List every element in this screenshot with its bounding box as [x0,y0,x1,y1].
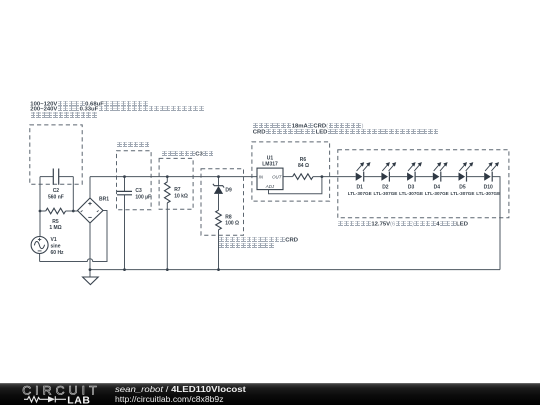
svg-text:D3: D3 [408,185,415,191]
LED D10 [484,162,499,182]
svg-text:LTL-307GE: LTL-307GE [425,191,449,196]
dashed box around C3 (low-voltage-side regulation) [117,151,152,210]
note line1: 100~120V needs 0.68uF [30,101,148,108]
svg-text:D10: D10 [484,185,493,191]
svg-text:D5: D5 [459,185,466,191]
node junction at 40,211 [39,210,42,213]
wire bottom rail [90,269,500,271]
svg-text:IN: IN [259,174,264,179]
wire V1 return with hop over ground wire [40,211,107,262]
dashed box around R7 (discharge C3) [159,158,193,209]
node junction at 90,269.6 [89,268,92,271]
node junction at 218.5,269.6 [217,268,220,271]
node junction at 124.5,176.6 [123,175,126,178]
wire BR1 bottom to ground junction [89,223,91,270]
CircuitLab footer bar [0,383,540,405]
svg-text:C2: C2 [53,188,60,194]
note CRD line2: CRD power limit / zener [253,129,439,136]
svg-text:LTL-307GE: LTL-307GE [399,191,423,196]
zener diode D9 [213,184,224,188]
svg-text:U1: U1 [267,155,274,161]
resistor R6 [293,174,313,180]
wire D9/R8 column [218,177,220,270]
wire left rail (C2/R5 left to V1 top) [39,177,41,237]
wire main top rail to U1 IN [90,176,257,178]
bridge rectifier BR1 [78,198,104,223]
svg-text:560 nF: 560 nF [48,194,64,200]
svg-text:100 µF: 100 µF [135,194,151,200]
node junction at 167.3,176.6 [166,175,169,178]
wire R7 column [166,177,168,270]
note CRD line1: use 18mA CRD [253,123,364,130]
caption: low-voltage-side regulation [117,142,150,149]
wire C2 branch right stub [59,176,74,178]
svg-text:LTL-307GE: LTL-307GE [373,191,397,196]
wire C3 top stub [124,177,126,192]
svg-text:84 Ω: 84 Ω [298,163,309,169]
dashed box around D9 and R8 (voltage clamp) [201,169,244,235]
wire ground stem [89,270,91,277]
svg-text:LAB: LAB [67,394,90,405]
node junction at 321.9,176.6 [321,175,324,178]
svg-text:R8: R8 [225,214,232,220]
LED D4 [433,162,459,182]
dashed box around U1 and R6 (CRD current source) [252,142,330,201]
svg-text:100 Ω: 100 Ω [225,220,239,226]
node junction at 73.3,211 [72,210,75,213]
wire C3 bottom to rail [124,195,126,270]
note line3: must use high-voltage mylar capacitor [30,112,97,119]
svg-text:C3: C3 [135,188,142,194]
wire R5 left stub [40,210,46,212]
svg-text:LTL-307GE: LTL-307GE [451,191,475,196]
svg-text:V1: V1 [51,237,57,243]
svg-text:D9: D9 [225,188,232,194]
svg-text:ADJ: ADJ [265,184,275,189]
dashed box around LED string [338,150,509,218]
node junction at 124.5,269.6 [123,268,126,271]
capacitor C2 plates [53,169,58,185]
capacitor C3 plates [117,191,132,194]
wire U1 OUT to R6 [283,176,293,178]
svg-text:D4: D4 [434,185,441,191]
resistor R5 [46,208,66,214]
note clamp line1 [219,237,299,244]
svg-text:R5: R5 [52,219,59,225]
wire BR1 top to main rail [89,177,91,198]
LED D3 [407,162,433,182]
svg-text:D2: D2 [382,185,389,191]
note LED forward voltage [338,221,468,228]
svg-text:1 MΩ: 1 MΩ [49,225,61,231]
LED D5 [459,162,485,182]
CircuitLab logo [0,383,110,405]
op-amp U1 LM317 box [257,168,283,190]
node junction at 167.3,269.6 [166,268,169,271]
svg-text:R7: R7 [174,187,181,193]
ground [83,277,99,285]
resistor R8 [216,210,222,230]
wire R6 right to LED box [313,176,356,178]
svg-text:D1: D1 [356,185,363,191]
wire C2 right drop to R5/BR1 junction [72,177,74,211]
wire U1 ADJ feedback to R6 right [269,177,322,194]
dashed box around C2 (switchable capacitor) [30,125,82,184]
svg-text:sine: sine [51,243,61,249]
svg-text:BR1: BR1 [99,197,109,203]
svg-text:10 kΩ: 10 kΩ [174,193,188,199]
wire R5 right stub to BR1 left [66,210,78,212]
wire V1 bottom [39,254,41,262]
wire LED string right riser [492,177,500,270]
svg-text:LTL-307GE: LTL-307GE [476,191,500,196]
svg-text:60 Hz: 60 Hz [51,250,65,256]
voltage source V1 [31,237,48,254]
resistor R7 [165,182,171,203]
note line2: 200~240V needs 0.33uF [30,106,204,113]
svg-text:OUT: OUT [272,174,282,179]
wire C2 branch left stub [40,176,53,178]
LED D1 [356,162,382,182]
node junction at 218.5,176.6 [217,175,220,178]
svg-text:LM317: LM317 [262,162,278,168]
LED D2 [381,162,407,182]
caption: discharge C3 when powered off [162,151,214,158]
note clamp line2 [219,243,275,250]
svg-text:LTL-307GE: LTL-307GE [348,191,372,196]
